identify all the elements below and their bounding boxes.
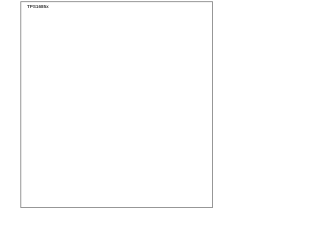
outer border — [21, 2, 213, 208]
svg-text:TPS1685x: TPS1685x — [27, 4, 49, 9]
